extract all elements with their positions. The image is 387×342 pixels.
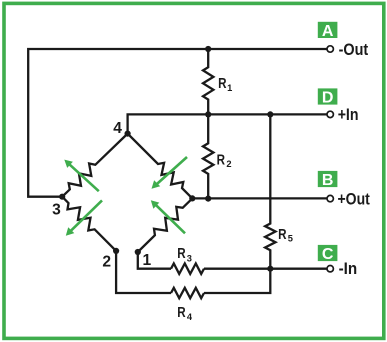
svg-text:-Out: -Out: [339, 41, 369, 59]
node 4: [125, 131, 131, 137]
gauge arrow bottom-right: [151, 200, 185, 233]
svg-text:2: 2: [102, 254, 111, 271]
bridge right node: [189, 195, 195, 201]
terminal D circle: [327, 111, 333, 117]
junction at R1 top: [205, 46, 211, 52]
gauge arrow top-right: [152, 157, 188, 189]
resistor R1: [203, 49, 213, 114]
junction on -In rail: [267, 266, 273, 272]
terminal A circle: [327, 46, 333, 52]
wire node4 to +In rail: [128, 114, 327, 133]
label box D: [318, 88, 338, 106]
wire R4 to -In junction: [204, 269, 270, 293]
resistor R4: [171, 288, 204, 298]
strain gauge arm node3-node4: [62, 134, 127, 197]
svg-text:R: R: [217, 151, 226, 168]
terminal C circle: [327, 266, 333, 272]
svg-text:+In: +In: [338, 106, 359, 124]
svg-text:1: 1: [143, 252, 152, 269]
wire node3 to -Out rail: [28, 49, 327, 197]
svg-text:B: B: [322, 172, 334, 189]
svg-text:1: 1: [227, 83, 232, 93]
wire nodeR to +Out rail: [192, 197, 327, 199]
wire node1 to R3: [138, 252, 171, 269]
resistor R3: [171, 264, 204, 274]
strain gauge arm node1-nodeR: [138, 198, 193, 252]
svg-text:3: 3: [187, 253, 192, 263]
gauge arrow top-left: [64, 160, 99, 192]
svg-text:2: 2: [226, 159, 231, 169]
strain gauge arm node4-nodeR: [128, 134, 193, 199]
wire node2 to R4: [116, 251, 171, 293]
node 3: [59, 194, 65, 200]
svg-text:R: R: [177, 245, 186, 262]
value label R3: [177, 245, 192, 264]
svg-text:C: C: [322, 246, 334, 263]
value label R1: [218, 75, 232, 93]
svg-text:R: R: [218, 75, 227, 92]
wire R3 to -In terminal: [204, 268, 327, 270]
value label R2: [217, 151, 232, 169]
resistor R5: [265, 114, 275, 268]
node 2: [113, 248, 119, 254]
gauge arrow bottom-left: [66, 200, 102, 235]
junction R1/R2 on +In rail: [205, 111, 211, 117]
resistor R2: [203, 114, 213, 198]
svg-text:4: 4: [187, 312, 193, 322]
junction R5 top on +In rail: [267, 111, 273, 117]
node 1: [135, 249, 141, 255]
strain gauge arm node3-node2: [62, 197, 116, 251]
svg-text:5: 5: [288, 234, 293, 244]
svg-text:D: D: [322, 89, 334, 106]
value label R5: [278, 226, 293, 244]
svg-text:R: R: [177, 304, 186, 321]
terminal B circle: [327, 195, 333, 201]
label box A: [318, 22, 338, 40]
svg-text:R: R: [278, 226, 287, 243]
svg-text:3: 3: [52, 201, 61, 218]
svg-text:4: 4: [113, 120, 122, 137]
svg-text:+Out: +Out: [338, 191, 371, 209]
label box B: [318, 171, 338, 189]
value label R4: [177, 304, 193, 322]
label box C: [318, 245, 338, 263]
svg-text:-In: -In: [339, 260, 358, 278]
svg-text:A: A: [322, 23, 334, 40]
junction R2 bottom on +Out rail: [205, 196, 211, 202]
